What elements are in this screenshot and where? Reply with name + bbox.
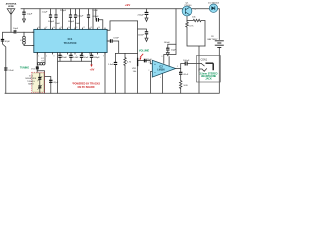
svg-text:11: 11 bbox=[91, 27, 93, 29]
svg-text:−: − bbox=[154, 70, 156, 74]
svg-text:1.0nF: 1.0nF bbox=[73, 57, 79, 59]
svg-text:1.0μF: 1.0μF bbox=[42, 12, 48, 14]
svg-text:10nF: 10nF bbox=[62, 57, 68, 59]
svg-text:10μF: 10μF bbox=[147, 59, 153, 61]
svg-text:3.3nF: 3.3nF bbox=[8, 70, 14, 72]
svg-text:16: 16 bbox=[53, 27, 55, 29]
svg-text:JACK: JACK bbox=[205, 78, 212, 81]
svg-text:2: 2 bbox=[148, 70, 149, 72]
svg-text:2: 2 bbox=[46, 56, 47, 58]
svg-text:15: 15 bbox=[60, 27, 62, 29]
svg-text:1: 1 bbox=[38, 56, 39, 58]
svg-text:10pF: 10pF bbox=[13, 28, 19, 30]
svg-text:47nF: 47nF bbox=[183, 74, 189, 76]
svg-text:14: 14 bbox=[68, 27, 70, 29]
svg-text:ANTENNA: ANTENNA bbox=[6, 2, 17, 5]
svg-text:GANG: GANG bbox=[28, 82, 34, 85]
svg-text:PN100: PN100 bbox=[185, 5, 192, 7]
svg-text:3.3nF: 3.3nF bbox=[92, 10, 98, 12]
svg-text:4: 4 bbox=[160, 77, 161, 79]
svg-text:6: 6 bbox=[162, 56, 163, 58]
svg-text:CON1: CON1 bbox=[201, 60, 208, 62]
svg-text:5: 5 bbox=[177, 66, 178, 68]
svg-text:180pF: 180pF bbox=[93, 57, 100, 59]
svg-text:MINIATURE: MINIATURE bbox=[25, 77, 37, 80]
svg-text:TUNING: TUNING bbox=[20, 66, 29, 69]
svg-text:1.0μF: 1.0μF bbox=[27, 14, 33, 16]
svg-text:+9V: +9V bbox=[125, 3, 130, 7]
svg-text:9: 9 bbox=[103, 56, 104, 58]
svg-text:10nF: 10nF bbox=[55, 23, 61, 25]
svg-text:220μF: 220μF bbox=[138, 15, 145, 17]
svg-text:680pF: 680pF bbox=[92, 16, 99, 18]
svg-text:3: 3 bbox=[148, 62, 149, 64]
svg-text:10nF: 10nF bbox=[83, 57, 89, 59]
svg-text:100nF: 100nF bbox=[138, 34, 145, 36]
svg-text:WIRE: WIRE bbox=[8, 6, 14, 8]
svg-text:47pF: 47pF bbox=[53, 82, 59, 84]
svg-text:100nF: 100nF bbox=[164, 42, 171, 44]
svg-text:17: 17 bbox=[45, 27, 47, 29]
svg-text:10Ω: 10Ω bbox=[183, 85, 187, 87]
svg-text:47pF: 47pF bbox=[5, 41, 11, 43]
svg-text:10nF: 10nF bbox=[75, 23, 81, 25]
svg-text:+9V: +9V bbox=[90, 68, 95, 72]
svg-text:10: 10 bbox=[98, 27, 100, 29]
svg-text:ON PC BOARD: ON PC BOARD bbox=[77, 86, 94, 89]
svg-text:100pF: 100pF bbox=[48, 21, 55, 23]
svg-text:100μF: 100μF bbox=[77, 16, 84, 18]
svg-text:D1 1N4004: D1 1N4004 bbox=[208, 2, 220, 4]
svg-text:LM386: LM386 bbox=[157, 69, 165, 72]
svg-text:100μF: 100μF bbox=[183, 60, 190, 62]
svg-text:180pF: 180pF bbox=[68, 21, 75, 23]
svg-text:1.0nF: 1.0nF bbox=[108, 64, 114, 66]
svg-text:3.3nF: 3.3nF bbox=[113, 37, 119, 39]
svg-text:12: 12 bbox=[83, 27, 85, 29]
svg-text:TDA7000: TDA7000 bbox=[64, 41, 77, 45]
svg-text:3: 3 bbox=[53, 56, 54, 58]
svg-text:220pF: 220pF bbox=[60, 10, 67, 12]
svg-text:10μF: 10μF bbox=[171, 50, 177, 52]
svg-text:VOLUME: VOLUME bbox=[139, 50, 150, 53]
svg-text:+: + bbox=[154, 62, 156, 66]
